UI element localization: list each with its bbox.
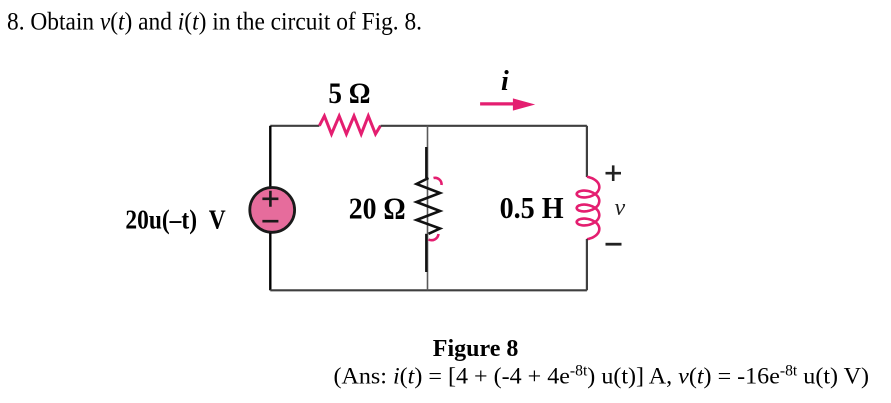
resistor R=20ohm vertical zigzag [417,178,441,234]
minus polarity label [606,243,622,246]
wire: left vertical (source down to bottom corner) [269,233,271,290]
wire: right vertical bottom (inductor to bottom corner) [586,239,588,290]
svg-text:v: v [615,195,626,221]
svg-text:8. Obtain v(t) and i(t) in the: 8. Obtain v(t) and i(t) in the circuit o… [7,6,422,35]
voltage source VS circle [250,188,295,233]
svg-text:i: i [501,66,509,97]
wire: top-left segment (left corner to 5-ohm resistor) [270,125,319,127]
svg-text:Figure 8: Figure 8 [433,336,519,362]
current arrow i [480,102,514,105]
pink arc remnant top of 20ohm [434,178,442,185]
plus polarity label [606,165,622,181]
wire: left vertical (top corner down to source) [269,126,271,187]
wire: bottom segment [270,289,587,291]
plus sign inside source [262,191,278,207]
wire: middle resistor top lead [425,147,427,178]
inductor L=0.5H coil [577,177,600,239]
svg-text:0.5 H: 0.5 H [500,190,564,225]
pink arc remnant bottom of 20ohm [429,234,439,240]
resistor R=5ohm zigzag [319,116,380,134]
minus sign inside source [262,220,278,223]
wire: right vertical top (corner down to inductor) [586,126,588,177]
svg-text:(Ans: i(t) = [4 + (-4 + 4e-8t): (Ans: i(t) = [4 + (-4 + 4e-8t) u(t)] A, … [334,363,870,390]
svg-text:20 Ω: 20 Ω [349,192,406,226]
wire: middle vertical thin [427,126,429,290]
svg-text:20u(–t) V: 20u(–t) V [125,203,225,234]
svg-text:5 Ω: 5 Ω [328,77,370,110]
wire: middle resistor bottom lead [425,234,427,272]
wire: top segment from resistor to right corner [381,125,587,127]
